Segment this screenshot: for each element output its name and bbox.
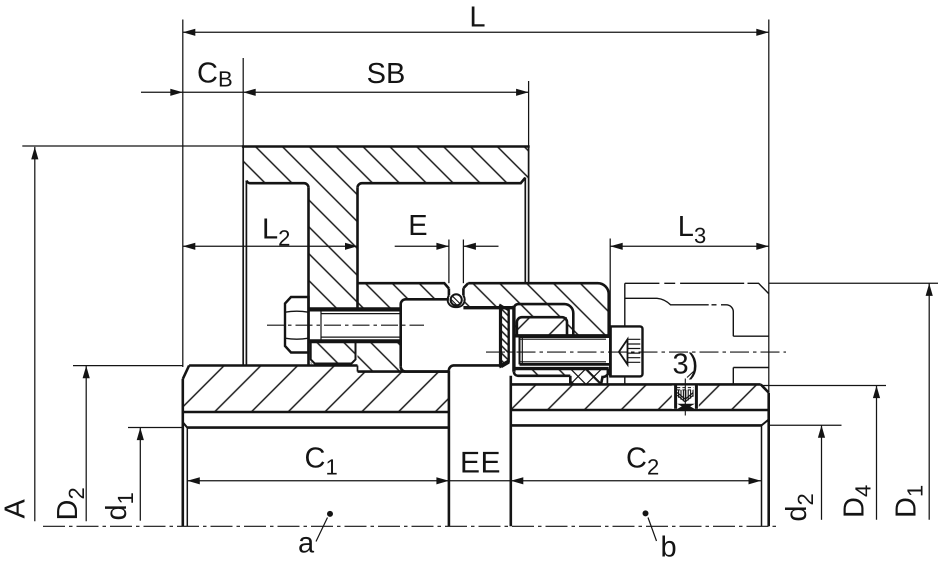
svg-text:a: a <box>298 528 315 560</box>
screw axis <box>486 351 786 353</box>
strip left of slot above block <box>358 283 449 308</box>
right flange arm underside <box>463 306 514 309</box>
svg-text:E: E <box>408 210 427 242</box>
d2 D4 D1 <box>818 425 825 438</box>
band bottom over leg <box>246 181 308 188</box>
block outline <box>401 299 449 367</box>
leaders a/b <box>316 510 657 541</box>
O-ring seat <box>448 296 465 308</box>
left plate outline <box>183 366 189 380</box>
boss outer/inner <box>514 304 573 336</box>
right flange upper mass <box>463 283 608 336</box>
L <box>183 31 769 33</box>
arrowheads <box>31 29 933 485</box>
web hatch (between leg and central region) <box>309 183 358 309</box>
C1 / EE / C2 <box>187 480 761 482</box>
left plate <box>183 366 449 413</box>
d2 / D4 / D1 <box>821 425 823 520</box>
svg-text:SB: SB <box>367 58 406 90</box>
extension lines <box>182 20 184 368</box>
CB outside left / shared at 243 / SB right <box>170 89 183 96</box>
L2 <box>183 243 196 250</box>
slot walls <box>448 289 451 296</box>
E outside <box>436 243 449 250</box>
svg-text:b: b <box>661 532 677 561</box>
bolt axis <box>267 324 424 326</box>
right plate <box>511 384 769 410</box>
C1 <box>187 477 200 484</box>
pocket floor + block bottom merged <box>358 370 449 373</box>
A D2 d1 <box>31 147 38 160</box>
strip top edge left <box>358 283 449 288</box>
C2 <box>511 477 524 484</box>
web foot <box>311 342 356 364</box>
block right bottom portion <box>449 365 500 371</box>
L2 / E / L3 <box>183 245 358 247</box>
web foot below bolt hole <box>311 342 356 364</box>
disc pack <box>501 306 509 367</box>
O-ring <box>451 294 462 305</box>
EE column edges <box>448 371 451 526</box>
boss inner region "/" <box>517 317 567 336</box>
disc pack edges <box>501 306 509 367</box>
block top / hole lines left <box>358 307 401 310</box>
X region right <box>570 369 602 385</box>
band bottom over central region <box>358 178 526 188</box>
right plate outline <box>511 383 761 386</box>
sleeve outline <box>242 145 530 148</box>
right flange top <box>468 283 609 336</box>
sleeve band hatch <box>243 147 529 184</box>
right flange left clamp face <box>512 306 515 372</box>
svg-text:EE: EE <box>460 447 501 480</box>
svg-text:A: A <box>0 499 32 519</box>
A / D2 / d1 <box>34 147 36 521</box>
CB/SB <box>141 91 529 93</box>
svg-text:L: L <box>469 1 485 33</box>
right flange below bore <box>514 369 608 385</box>
L3 <box>610 243 623 250</box>
L <box>183 29 196 36</box>
between web and block below shank <box>358 342 401 372</box>
svg-text:3): 3) <box>673 348 699 380</box>
bore lines <box>514 334 609 337</box>
